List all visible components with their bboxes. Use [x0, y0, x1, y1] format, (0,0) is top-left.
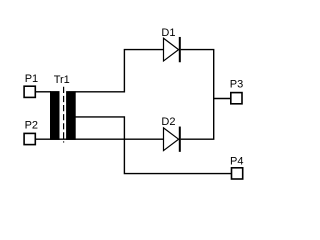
- svg-text:D2: D2: [161, 116, 175, 128]
- port P3: [231, 93, 242, 104]
- wire P1 to Tr1 primary top: [35, 91, 51, 93]
- wire node to P3: [214, 98, 231, 100]
- port P1: [24, 86, 35, 97]
- svg-text:P4: P4: [230, 156, 243, 168]
- diode D2 cathode bar: [179, 127, 181, 152]
- svg-text:P3: P3: [230, 79, 243, 91]
- svg-text:P2: P2: [25, 120, 38, 132]
- diode D1 cathode bar: [179, 37, 181, 62]
- diode D2 triangle (anode): [164, 128, 179, 151]
- wire Tr1 secondary top tap up to D1 anode: [76, 50, 164, 92]
- wire D1 cathode right then down to D2 cathode: [181, 50, 214, 140]
- wire Tr1 secondary center tap down to P4: [76, 117, 232, 174]
- transformer Tr1 core dashed line: [63, 87, 65, 143]
- transformer Tr1 secondary winding bar: [66, 91, 76, 140]
- port P4: [232, 168, 243, 179]
- svg-text:P1: P1: [25, 73, 38, 85]
- transformer Tr1 primary winding bar: [50, 91, 60, 140]
- port P2: [24, 133, 35, 144]
- svg-text:D1: D1: [161, 27, 175, 39]
- svg-text:Tr1: Tr1: [54, 74, 70, 86]
- wire P2 to Tr1 primary bottom, continuing as bottom tap run: [35, 138, 164, 140]
- diode D1 triangle (anode): [164, 38, 179, 61]
